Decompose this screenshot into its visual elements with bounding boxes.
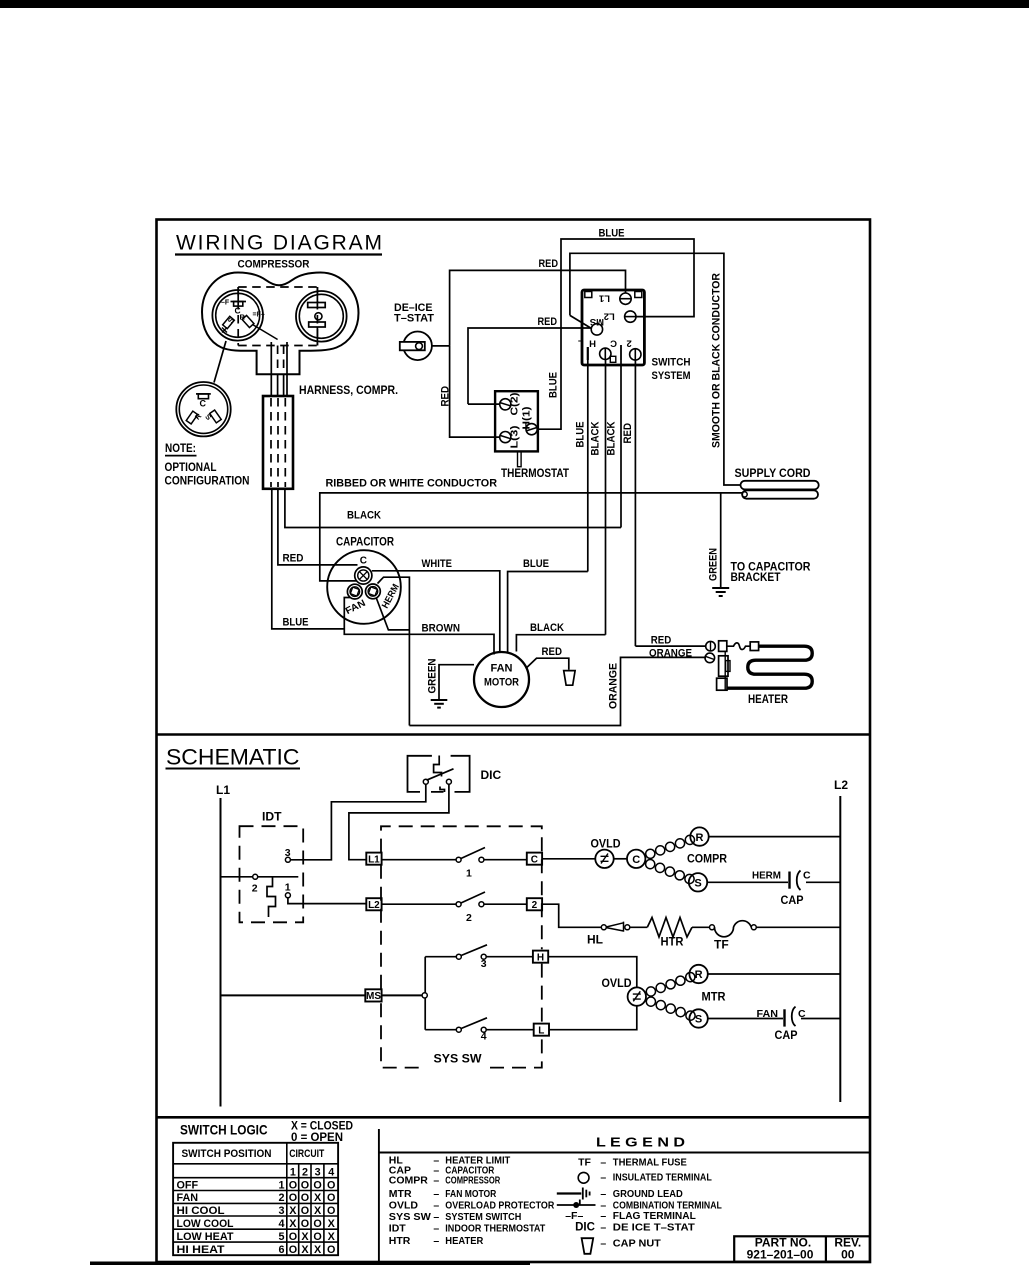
svg-text:LOW COOL: LOW COOL: [177, 1218, 234, 1230]
wire L1 bus to MS: [221, 994, 366, 996]
compressor start winding coil: [646, 860, 655, 869]
harness leads (dashed): [270, 398, 272, 487]
svg-text:X = CLOSED: X = CLOSED: [291, 1121, 353, 1133]
svg-text:INDOOR THERMOSTAT: INDOOR THERMOSTAT: [445, 1223, 545, 1235]
svg-text:C: C: [803, 870, 811, 882]
wire L1 bus to IDT 2: [221, 876, 299, 878]
terminal L: [587, 347, 589, 360]
svg-text:THERMOSTAT: THERMOSTAT: [501, 468, 569, 480]
dashed pickup rectangle: [238, 286, 317, 288]
svg-text:X: X: [314, 1244, 322, 1256]
cap nut: [564, 671, 575, 686]
wire L box to MTR overload: [549, 1006, 637, 1030]
svg-text:BLACK: BLACK: [530, 622, 564, 634]
wire lead from R terminal: [253, 325, 278, 340]
switch system box: [582, 290, 644, 365]
svg-text:MTR: MTR: [389, 1188, 412, 1200]
svg-text:–: –: [433, 1223, 439, 1235]
section divider 2: [156, 1116, 870, 1119]
left socket C terminal: [237, 287, 239, 302]
svg-text:X: X: [289, 1205, 297, 1217]
heater element serpentine: [727, 646, 812, 688]
svg-text:–: –: [433, 1199, 439, 1211]
wire RED switch 2 down: [634, 360, 636, 646]
svg-text:SWITCH POSITION: SWITCH POSITION: [182, 1148, 272, 1160]
svg-text:4: 4: [278, 1218, 284, 1230]
svg-text:CAP: CAP: [775, 1028, 798, 1042]
svg-text:COMPRESSOR: COMPRESSOR: [445, 1175, 500, 1187]
dashed leads down neck: [277, 346, 279, 375]
svg-text:C(2): C(2): [509, 393, 521, 416]
svg-text:CAP NUT: CAP NUT: [613, 1237, 662, 1249]
svg-text:HI HEAT: HI HEAT: [177, 1244, 225, 1256]
IDT dashed box: [240, 826, 304, 922]
heater terminal circles: [706, 641, 716, 651]
svg-text:L1: L1: [368, 855, 380, 866]
svg-text:4: 4: [328, 1167, 334, 1179]
svg-text:WHITE: WHITE: [422, 558, 453, 570]
wire ribbed conductor: [320, 493, 742, 581]
svg-text:FAN MOTOR: FAN MOTOR: [445, 1188, 496, 1200]
svg-text:1: 1: [278, 1179, 284, 1191]
legend left column: [389, 1155, 555, 1247]
svg-text:MTR: MTR: [702, 989, 726, 1003]
svg-text:HERM: HERM: [752, 870, 781, 882]
svg-text:–: –: [433, 1188, 439, 1200]
wire IDT 1 to SYS SW L2: [288, 898, 366, 904]
heater combination terminal: [719, 656, 728, 676]
ground fan motor: [431, 699, 448, 701]
svg-text:NOTE:: NOTE:: [165, 441, 196, 455]
svg-text:1: 1: [285, 881, 291, 893]
wire DIC right lead to SYS SW L1: [349, 784, 449, 860]
svg-text:GREEN: GREEN: [427, 658, 439, 693]
motor R terminal: [689, 965, 707, 983]
svg-text:SCHEMATIC: SCHEMATIC: [166, 745, 300, 770]
svg-text:DIC: DIC: [481, 768, 502, 782]
svg-text:SMOOTH OR BLACK CONDUCTOR: SMOOTH OR BLACK CONDUCTOR: [711, 273, 723, 448]
svg-text:–: –: [600, 1210, 606, 1222]
svg-text:O: O: [313, 1218, 321, 1230]
IDT terminal 2: [253, 874, 258, 879]
DIC switch blade: [427, 769, 454, 780]
svg-text:5: 5: [278, 1231, 284, 1243]
ground lead symbol: [557, 1192, 582, 1194]
switch logic table frame: [173, 1143, 338, 1255]
svg-text:MS: MS: [366, 991, 381, 1002]
svg-text:–F: –F: [221, 300, 230, 307]
svg-text:2: 2: [627, 338, 632, 349]
wire H box to MTR overload: [548, 957, 637, 988]
section divider 1: [156, 733, 870, 736]
compressor S terminal: [689, 873, 707, 891]
terminal L2: [625, 311, 636, 322]
svg-text:3: 3: [481, 958, 487, 970]
switch contact 3: [425, 956, 456, 958]
svg-text:RED: RED: [283, 553, 304, 565]
svg-text:COMPRESSOR: COMPRESSOR: [238, 259, 310, 271]
svg-text:–: –: [600, 1172, 606, 1184]
svg-text:MS: MS: [590, 316, 604, 327]
svg-text:COMPR: COMPR: [687, 851, 727, 865]
wire RED harness to capacitor C: [278, 489, 358, 565]
svg-text:X: X: [301, 1231, 309, 1243]
terminal C(2): [500, 399, 511, 410]
svg-text:6: 6: [278, 1244, 284, 1256]
svg-text:4: 4: [481, 1031, 487, 1043]
svg-text:BLACK: BLACK: [347, 510, 381, 522]
wire BLACK switch H down: [605, 360, 607, 635]
wire BLUE switch L down: [587, 360, 589, 572]
svg-text:H(1): H(1): [521, 407, 533, 430]
svg-text:–: –: [433, 1175, 439, 1187]
svg-text:CIRCUIT: CIRCUIT: [289, 1148, 324, 1160]
svg-text:L1: L1: [598, 293, 610, 304]
de-ice t-stat symbol: [403, 332, 432, 361]
thermostat box: [495, 391, 538, 451]
svg-text:O: O: [289, 1244, 297, 1256]
supply cord cable 1: [741, 481, 819, 490]
svg-text:HEATER: HEATER: [445, 1235, 483, 1247]
svg-text:L2: L2: [604, 311, 615, 322]
wire RED de-ice up to switch L1: [450, 270, 626, 346]
svg-text:OVLD: OVLD: [591, 837, 621, 851]
heater top terminal block: [719, 641, 727, 652]
capacitor terminal C: [355, 567, 372, 584]
bottom scan bar: [90, 1262, 530, 1265]
svg-text:OPTIONAL: OPTIONAL: [165, 462, 217, 474]
svg-text:SYSTEM: SYSTEM: [652, 370, 691, 382]
right socket terminals: [316, 287, 318, 303]
wire GREEN fan motor to ground: [439, 665, 474, 700]
svg-text:BLUE: BLUE: [523, 558, 549, 570]
svg-text:X: X: [328, 1231, 336, 1243]
svg-text:BLUE: BLUE: [548, 372, 560, 398]
terminal 2: [630, 349, 641, 360]
DIC box: [408, 756, 470, 792]
svg-text:C: C: [360, 556, 367, 567]
wire BLACK switch H to fan motor: [516, 635, 605, 652]
svg-text:L2: L2: [834, 778, 848, 792]
wire junction riser: [424, 957, 426, 1030]
wire BLUE switch L to fan motor: [508, 572, 588, 653]
svg-text:HARNESS, COMPR.: HARNESS, COMPR.: [299, 385, 398, 397]
svg-text:3: 3: [315, 1167, 321, 1179]
svg-text:3: 3: [285, 847, 291, 859]
svg-text:–F–: –F–: [565, 1210, 583, 1222]
svg-text:–: –: [433, 1211, 439, 1223]
svg-text:IDT: IDT: [389, 1223, 407, 1235]
svg-text:–: –: [600, 1157, 606, 1169]
wire motor S to fan cap: [708, 1018, 783, 1020]
wire compressor leads in neck: [270, 342, 272, 396]
svg-text:SWITCH: SWITCH: [652, 356, 691, 368]
svg-text:O: O: [289, 1179, 297, 1191]
svg-text:CAP: CAP: [781, 893, 804, 907]
svg-text:O: O: [327, 1244, 335, 1256]
compressor right socket circle: [296, 291, 347, 342]
wire smooth conductor diagonal into MS: [570, 315, 591, 328]
svg-text:SYSTEM SWITCH: SYSTEM SWITCH: [445, 1211, 521, 1223]
svg-text:RIBBED OR WHITE CONDUCTOR: RIBBED OR WHITE CONDUCTOR: [326, 478, 498, 490]
wire RED de-ice down to thermostat L(3): [450, 346, 500, 437]
thermostat stub: [518, 451, 522, 466]
compressor outline (peanut shell): [202, 273, 359, 375]
compressor run winding coil: [646, 849, 655, 858]
svg-text:RED: RED: [622, 423, 634, 444]
switch contact 2: [382, 903, 457, 905]
svg-text:BLACK: BLACK: [590, 421, 602, 455]
svg-text:INSULATED TERMINAL: INSULATED TERMINAL: [613, 1172, 712, 1184]
thermal fuse TF: [710, 925, 715, 930]
svg-text:S: S: [694, 878, 701, 890]
svg-text:FAN: FAN: [491, 663, 513, 675]
contact box L: [534, 1024, 549, 1036]
svg-text:–: –: [600, 1237, 606, 1249]
svg-text:X: X: [314, 1205, 322, 1217]
svg-text:RED: RED: [539, 258, 559, 270]
svg-text:TF: TF: [578, 1157, 591, 1169]
terminal L(3): [500, 432, 511, 443]
motor run winding coil: [646, 987, 655, 996]
svg-text:ORANGE: ORANGE: [649, 648, 692, 660]
svg-text:SYS SW: SYS SW: [389, 1211, 431, 1223]
motor start winding coil: [646, 997, 655, 1006]
terminal C: [620, 345, 622, 360]
insulated terminal symbol: [578, 1172, 589, 1183]
svg-text:OVLD: OVLD: [389, 1199, 419, 1211]
svg-text:00: 00: [841, 1248, 855, 1262]
svg-text:X: X: [289, 1218, 297, 1230]
note diagonal to optional plug: [214, 341, 226, 383]
svg-text:HTR: HTR: [661, 935, 684, 949]
wire RED thermostat C(2) to switch MS: [468, 328, 591, 404]
svg-text:R: R: [240, 313, 246, 322]
svg-text:WIRING DIAGRAM: WIRING DIAGRAM: [176, 232, 382, 255]
svg-text:2: 2: [532, 900, 538, 911]
svg-text:1: 1: [290, 1167, 296, 1179]
motor S terminal: [689, 1009, 707, 1027]
svg-text:2: 2: [466, 912, 472, 924]
svg-text:X: X: [328, 1218, 336, 1230]
wire OVLD to C terminal: [614, 858, 627, 860]
svg-text:GROUND LEAD: GROUND LEAD: [613, 1188, 683, 1200]
svg-text:IDT: IDT: [262, 810, 282, 824]
SYS SW dashed outline: [381, 826, 542, 1067]
heater limit HL: [601, 925, 606, 930]
svg-text:R: R: [696, 832, 704, 844]
capacitor terminal FAN: [347, 584, 362, 599]
svg-text:BLACK: BLACK: [606, 421, 618, 455]
contact box 2: [527, 898, 542, 910]
svg-text:–: –: [600, 1188, 606, 1200]
svg-text:O: O: [301, 1218, 309, 1230]
svg-text:MOTOR: MOTOR: [484, 677, 519, 689]
svg-text:O: O: [313, 1179, 321, 1191]
svg-text:CAPACITOR: CAPACITOR: [336, 537, 395, 549]
terminal H(1): [526, 424, 537, 435]
compressor left socket circle: [212, 290, 263, 341]
IDT terminal 1: [285, 893, 290, 898]
svg-text:BLUE: BLUE: [575, 422, 587, 448]
svg-text:TF: TF: [714, 938, 729, 952]
contact box L2: [366, 898, 381, 910]
wire C box to OVLD: [542, 858, 595, 860]
svg-text:921–201–00: 921–201–00: [747, 1248, 814, 1262]
wire DIC left lead to IDT 3: [290, 784, 425, 860]
svg-text:RED: RED: [542, 646, 563, 658]
svg-text:O: O: [327, 1179, 335, 1191]
svg-text:FAN: FAN: [177, 1192, 199, 1204]
terminal MS: [591, 324, 602, 335]
svg-text:RED: RED: [651, 634, 672, 646]
svg-text:L1: L1: [216, 783, 230, 797]
wire GREEN to ground: [720, 493, 722, 588]
wire S to herm cap: [707, 881, 788, 883]
switch contact 4: [425, 1029, 456, 1031]
svg-text:O: O: [327, 1192, 335, 1204]
svg-text:C: C: [200, 399, 207, 409]
svg-text:1: 1: [466, 867, 472, 879]
svg-text:=F–: =F–: [253, 312, 265, 319]
svg-text:HI COOL: HI COOL: [177, 1205, 225, 1217]
svg-text:O: O: [301, 1192, 309, 1204]
cap nut symbol: [582, 1238, 594, 1254]
svg-text:RED: RED: [538, 316, 558, 328]
fan motor circle: [474, 652, 529, 707]
left socket R terminal: [242, 315, 254, 327]
contact box H: [533, 951, 548, 963]
svg-text:SUPPLY CORD: SUPPLY CORD: [735, 466, 811, 480]
wire TF to L2: [756, 926, 840, 928]
svg-text:O: O: [327, 1205, 335, 1217]
svg-text:GREEN: GREEN: [708, 548, 720, 581]
wire HTR to TF: [692, 926, 710, 928]
wire 2 box to HL: [542, 904, 601, 927]
wire L2 bus: [839, 796, 841, 1102]
wire R to L2: [709, 836, 841, 838]
svg-text:S: S: [695, 1014, 702, 1026]
border frame: [157, 220, 871, 1263]
svg-text:O: O: [313, 1231, 321, 1243]
svg-text:LOW HEAT: LOW HEAT: [177, 1231, 234, 1243]
terminal L1: [620, 293, 631, 304]
wire smooth/black conductor to supply cord: [570, 253, 741, 485]
wire HL to HTR: [630, 926, 648, 928]
svg-text:L: L: [578, 338, 584, 349]
svg-text:C: C: [610, 338, 617, 349]
svg-text:RED: RED: [440, 386, 452, 407]
legend divider: [378, 1129, 380, 1262]
resistor HTR: [647, 918, 692, 938]
wire de-ice to junction: [432, 345, 450, 347]
wire HERM to orange drop: [378, 577, 410, 725]
capacitor terminal HERM: [366, 584, 381, 599]
wire BLACK harness to switch C: [285, 489, 621, 528]
svg-text:2: 2: [252, 882, 258, 894]
svg-text:–: –: [433, 1235, 439, 1247]
svg-text:OVERLOAD PROTECTOR: OVERLOAD PROTECTOR: [445, 1199, 554, 1211]
wire RED switch 2 to heater: [635, 645, 706, 647]
svg-text:O: O: [301, 1205, 309, 1217]
svg-text:BLUE: BLUE: [283, 617, 309, 629]
combination terminal symbol: [557, 1204, 596, 1206]
svg-text:O: O: [289, 1231, 297, 1243]
terminal H: [600, 348, 611, 359]
contact box L1: [366, 853, 381, 865]
wire BLACK switch C down: [620, 360, 622, 528]
wire ORANGE bottom run: [409, 657, 706, 725]
contact box MS: [365, 989, 381, 1001]
contact box C: [527, 853, 542, 865]
svg-text:HEATER: HEATER: [748, 692, 788, 706]
svg-text:L E G E N D: L E G E N D: [596, 1135, 685, 1149]
harness rectangle: [263, 396, 293, 489]
top scan bar: [0, 0, 1029, 8]
svg-text:3: 3: [278, 1205, 284, 1217]
svg-text:COMPR: COMPR: [389, 1175, 429, 1187]
svg-text:L: L: [538, 1026, 544, 1037]
svg-text:BLUE: BLUE: [599, 228, 625, 240]
wire BLUE thermostat H(1) to switch L2: [537, 239, 694, 429]
svg-text:O: O: [301, 1179, 309, 1191]
junction node: [422, 993, 427, 998]
flag terminal squiggle: [727, 643, 750, 650]
svg-text:FLAG TERMINAL: FLAG TERMINAL: [613, 1210, 697, 1222]
svg-text:H: H: [589, 338, 596, 349]
optional configuration plug: [176, 382, 230, 436]
svg-text:R: R: [695, 969, 703, 981]
wire RED fan motor to cap nut: [527, 658, 569, 670]
wire MS to junction: [382, 994, 423, 996]
svg-text:2: 2: [278, 1192, 284, 1204]
svg-text:DIC: DIC: [575, 1222, 595, 1234]
svg-text:2: 2: [302, 1167, 308, 1179]
switch contact 1: [382, 859, 457, 861]
svg-text:THERMAL FUSE: THERMAL FUSE: [613, 1157, 687, 1169]
svg-text:T–STAT: T–STAT: [394, 312, 434, 324]
svg-text:OVLD: OVLD: [602, 976, 632, 990]
svg-text:L2: L2: [368, 900, 380, 911]
legend right column: [565, 1157, 722, 1250]
svg-text:SYS SW: SYS SW: [434, 1052, 483, 1066]
svg-text:ORANGE: ORANGE: [607, 663, 619, 709]
DIC thermal staircase: [434, 756, 442, 777]
svg-text:C: C: [531, 855, 538, 866]
IDT thermostat staircase: [267, 877, 276, 917]
wire WHITE capacitor C to fan motor: [372, 571, 500, 653]
wire motor R to L2: [708, 973, 841, 975]
svg-text:BROWN: BROWN: [422, 623, 461, 635]
ground (capacitor bracket): [712, 587, 729, 589]
svg-text:C: C: [632, 854, 640, 866]
compressor common terminal C: [627, 850, 645, 868]
svg-text:HTR: HTR: [389, 1235, 411, 1247]
svg-text:FAN: FAN: [757, 1008, 779, 1020]
capacitor circle: [327, 550, 401, 624]
svg-text:X: X: [314, 1192, 322, 1204]
svg-text:OFF: OFF: [177, 1179, 199, 1191]
supply cord cable 2: [742, 490, 818, 498]
svg-text:O: O: [289, 1192, 297, 1204]
svg-text:BRACKET: BRACKET: [731, 570, 782, 584]
wire L1 bus: [220, 798, 222, 1107]
svg-text:L(3): L(3): [509, 426, 521, 449]
left socket S terminal: [223, 316, 235, 328]
svg-text:–: –: [600, 1222, 606, 1234]
svg-text:H: H: [537, 953, 544, 964]
part number box: [734, 1236, 870, 1261]
